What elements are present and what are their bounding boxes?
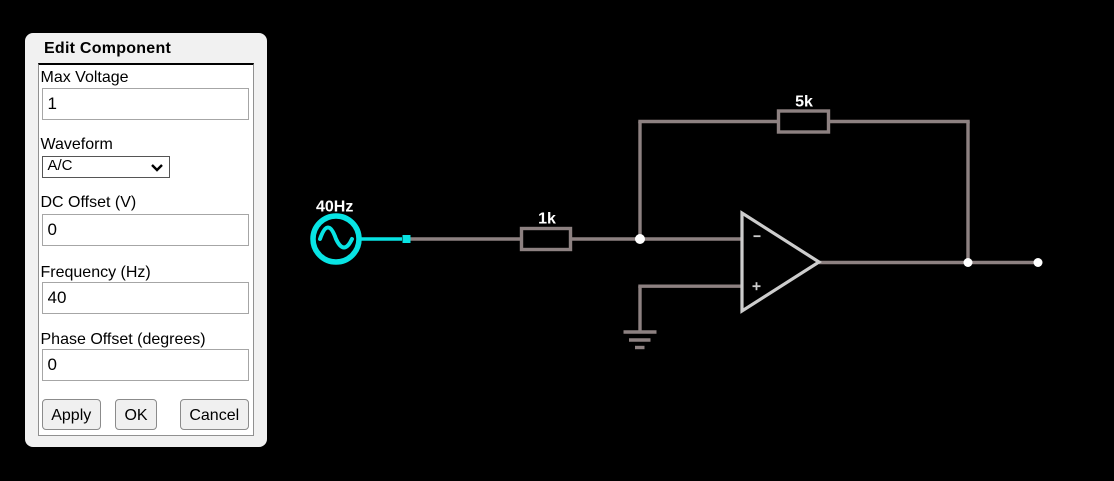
svg-text:40Hz: 40Hz (316, 199, 353, 216)
svg-text:1k: 1k (538, 211, 556, 228)
svg-text:5k: 5k (795, 94, 813, 111)
